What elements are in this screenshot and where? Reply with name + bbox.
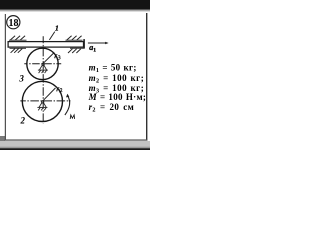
label M (torque) bbox=[70, 115, 74, 119]
svg-text:2: 2 bbox=[19, 115, 25, 125]
label r3 bbox=[55, 55, 61, 60]
svg-text:18: 18 bbox=[9, 18, 19, 29]
right support baseline below beam bbox=[70, 47, 85, 49]
right support surface above beam bbox=[66, 39, 83, 41]
radius r2 line bbox=[42, 88, 55, 101]
pivot bearing of wheel 3 bbox=[38, 63, 48, 73]
wheel 3 (upper pulley) bbox=[27, 48, 58, 79]
rod 1 (beam) bbox=[8, 42, 83, 48]
figure frame bottom border bbox=[5, 139, 148, 140]
radius r3 line bbox=[43, 53, 55, 64]
acceleration arrow a1 bbox=[88, 42, 106, 44]
svg-text:r2 = 20 см: r2 = 20 см bbox=[89, 102, 134, 114]
figure frame right border bbox=[146, 13, 147, 141]
center line vertical (dash-dot) bbox=[42, 36, 44, 124]
svg-text:1: 1 bbox=[55, 24, 59, 33]
bottom page-edge bands bbox=[0, 141, 150, 147]
center line horizontal lower wheel bbox=[20, 100, 70, 102]
left support hatch below beam bbox=[11, 49, 23, 53]
right support hatch below beam bbox=[68, 49, 81, 53]
torque arc M bbox=[65, 96, 70, 115]
problem number circle 18 bbox=[7, 16, 20, 29]
figure frame left border bbox=[5, 14, 6, 141]
center line horizontal upper wheel bbox=[24, 63, 61, 65]
left support hatch above beam bbox=[10, 36, 25, 40]
svg-text:3: 3 bbox=[18, 74, 24, 84]
label r2 bbox=[57, 88, 63, 92]
top page-edge black band bbox=[0, 0, 150, 10]
label 1 leader line bbox=[49, 32, 54, 40]
wheel 2 (lower pulley) bbox=[22, 81, 62, 121]
torque arrowhead bbox=[66, 94, 69, 98]
svg-text:М = 100 Н·м;: М = 100 Н·м; bbox=[88, 92, 147, 102]
left support surface below beam bbox=[10, 47, 27, 49]
left support surface above beam bbox=[9, 39, 27, 41]
pivot bearing of wheel 2 bbox=[37, 101, 47, 111]
beam right end plate bbox=[83, 39, 85, 48]
paper background bbox=[0, 0, 150, 150]
data text block bbox=[88, 62, 147, 113]
right support hatch above beam bbox=[67, 36, 82, 40]
